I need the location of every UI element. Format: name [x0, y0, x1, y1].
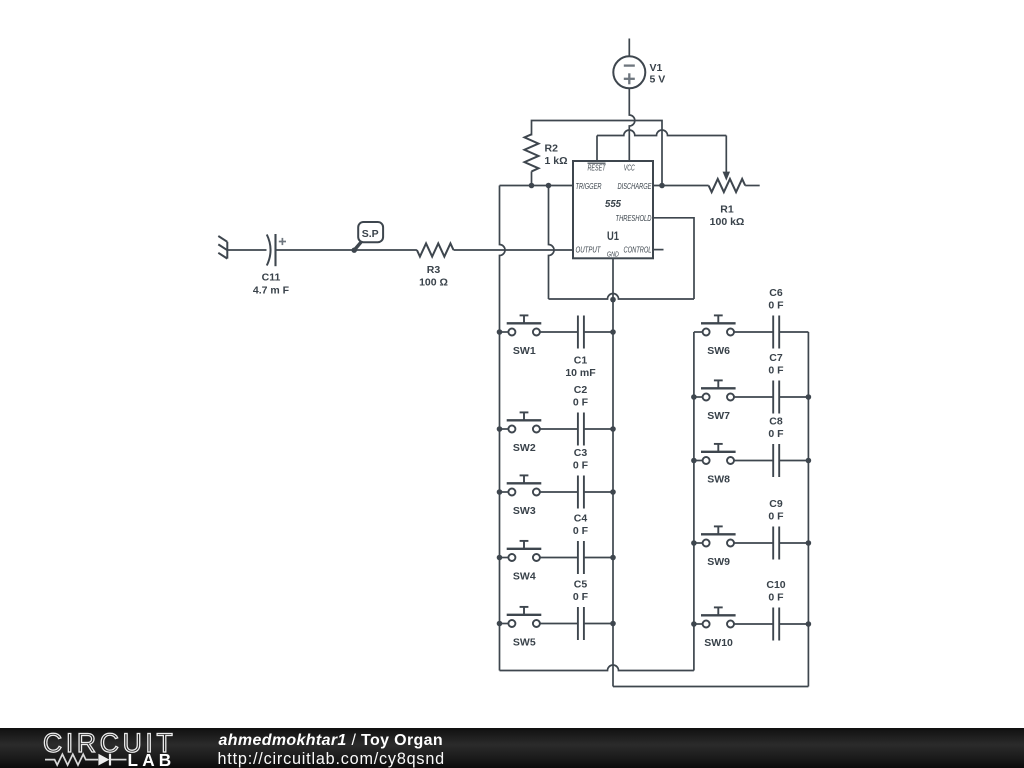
capacitor C2 0 F [540, 384, 613, 445]
svg-text:0 F: 0 F [573, 460, 589, 472]
svg-text:100 Ω: 100 Ω [419, 276, 448, 288]
wire right column left bus [693, 332, 695, 671]
wire right column right bus [807, 332, 809, 687]
svg-text:VCC: VCC [624, 162, 636, 172]
svg-text:R2: R2 [545, 143, 559, 155]
svg-text:C4: C4 [574, 513, 588, 525]
svg-text:S.P: S.P [362, 228, 379, 240]
svg-text:555: 555 [605, 198, 621, 210]
junction C7 on right bus [806, 394, 812, 400]
junction on gnd bus [610, 297, 616, 303]
wire GND pin down the capacitor bus [612, 258, 614, 686]
wire trigger-threshold link vertical (hops over output wire) [549, 186, 555, 300]
svg-text:0 F: 0 F [768, 428, 784, 440]
capacitor C1 10 mF [540, 316, 613, 379]
wire V1 top stub [628, 39, 630, 57]
wire C11 to R3 (OUTPUT net) [276, 249, 417, 251]
junction C5 on right bus [610, 621, 616, 627]
capacitor C3 0 F [540, 447, 613, 508]
junction threshold feedback on trigger wire [546, 183, 552, 189]
svg-text:SW1: SW1 [513, 345, 536, 357]
resistor R3 100 Ω [417, 243, 454, 288]
junction C8 on right bus [806, 458, 812, 464]
svg-text:V1: V1 [650, 62, 663, 74]
switch SW7 [694, 380, 736, 421]
svg-text:SW3: SW3 [513, 505, 536, 517]
svg-text:R3: R3 [427, 264, 441, 276]
svg-text:TRIGGER: TRIGGER [576, 181, 602, 191]
svg-text:SW9: SW9 [707, 556, 730, 568]
junction R2 bottom on trigger wire [529, 183, 535, 189]
junction SW5 on left bus [497, 621, 503, 627]
junction SW7 on left bus [691, 394, 697, 400]
svg-text:C3: C3 [574, 447, 588, 459]
junction SW10 on left bus [691, 621, 697, 627]
svg-text:C10: C10 [766, 579, 785, 591]
svg-text:SW7: SW7 [707, 410, 730, 422]
svg-text:GND: GND [607, 249, 619, 258]
svg-text:C2: C2 [574, 384, 588, 396]
junction SW2 on left bus [497, 426, 503, 432]
probe S.P [352, 222, 384, 253]
wire THRESHOLD to node loop [653, 218, 694, 299]
junction C2 on right bus [610, 426, 616, 432]
svg-text:0 F: 0 F [573, 591, 589, 603]
junction C1 on right bus [610, 329, 616, 335]
svg-text:CONTROL: CONTROL [624, 245, 652, 255]
wire RESET pin to R1 wiper (hops over two verticals) [597, 130, 726, 173]
junction C4 on right bus [610, 555, 616, 561]
junction SW9 on left bus [691, 540, 697, 546]
svg-text:1 kΩ: 1 kΩ [545, 155, 568, 167]
junction SW3 on left bus [497, 489, 503, 495]
capacitor C10 0 F [734, 579, 809, 640]
svg-text:U1: U1 [607, 231, 619, 243]
ground [218, 236, 227, 259]
svg-text:ahmedmokhtar1 / Toy Organ: ahmedmokhtar1 / Toy Organ [219, 732, 444, 749]
svg-text:0 F: 0 F [573, 397, 589, 409]
switch SW9 [694, 526, 736, 567]
svg-text:10 mF: 10 mF [565, 367, 596, 379]
junction C3 on right bus [610, 489, 616, 495]
switch SW8 [694, 444, 736, 485]
switch SW4 [500, 541, 542, 582]
svg-text:0 F: 0 F [573, 525, 589, 537]
junction SW8 on left bus [691, 458, 697, 464]
capacitor C6 0 F [734, 287, 809, 348]
svg-text:R1: R1 [720, 204, 734, 216]
switch SW1 [500, 315, 542, 356]
capacitor C9 0 F [734, 498, 809, 559]
switch SW2 [500, 412, 542, 453]
junction SW4 on left bus [497, 555, 503, 561]
wire ground to C11 [227, 249, 266, 251]
svg-text:C5: C5 [574, 579, 588, 591]
svg-text:DISCHARGE: DISCHARGE [618, 181, 652, 191]
svg-text:C1: C1 [574, 355, 588, 367]
rheostat R1 100 kΩ [709, 172, 760, 229]
voltage source V1 5 V [613, 56, 665, 88]
svg-text:THRESHOLD: THRESHOLD [616, 213, 652, 223]
CircuitLab logo [43, 728, 176, 768]
svg-text:C11: C11 [262, 272, 281, 284]
svg-text:RESET: RESET [588, 162, 607, 172]
svg-text:http://circuitlab.com/cy8qsnd: http://circuitlab.com/cy8qsnd [218, 750, 445, 768]
capacitor C4 0 F [540, 513, 613, 574]
svg-text:SW6: SW6 [707, 345, 730, 357]
svg-text:SW5: SW5 [513, 636, 536, 648]
svg-text:SW2: SW2 [513, 442, 536, 454]
svg-text:0 F: 0 F [768, 300, 784, 312]
junction discharge node [659, 183, 665, 189]
junction C9 on right bus [806, 540, 812, 546]
wire TRIGGER pin [500, 185, 574, 187]
wire DISCHARGE to R1 [653, 185, 709, 187]
wire left bus (trigger to switches, hops over output wire) [500, 186, 506, 671]
svg-text:5 V: 5 V [650, 73, 666, 85]
op-amp/timer IC U1 555 [573, 161, 653, 258]
svg-text:C9: C9 [769, 498, 783, 510]
svg-text:OUTPUT: OUTPUT [576, 245, 602, 255]
svg-text:SW10: SW10 [704, 637, 733, 649]
resistor R2 1 kΩ [525, 134, 568, 185]
switch SW6 [694, 315, 736, 356]
wire CONTROL stub [653, 249, 664, 251]
capacitor C11 4.7 m F [253, 234, 290, 297]
svg-text:C8: C8 [769, 416, 783, 428]
svg-text:C7: C7 [769, 352, 783, 364]
svg-text:0 F: 0 F [768, 592, 784, 604]
svg-text:0 F: 0 F [768, 511, 784, 523]
svg-text:SW8: SW8 [707, 473, 730, 485]
svg-text:LAB: LAB [128, 750, 176, 768]
junction C10 on right bus [806, 621, 812, 627]
wire bottom trigger bus (hops over gnd bus) [500, 665, 694, 671]
svg-text:C6: C6 [769, 287, 783, 299]
switch SW5 [500, 607, 542, 648]
capacitor C5 0 F [540, 579, 613, 640]
junction SW1 on left bus [497, 329, 503, 335]
wire R2 top to DISCHARGE node [532, 121, 663, 186]
svg-text:0 F: 0 F [768, 365, 784, 377]
capacitor C8 0 F [734, 416, 809, 477]
wire R3 to OUTPUT pin of U1 [454, 249, 574, 251]
capacitor C7 0 F [734, 352, 809, 413]
wire trigger-threshold bottom link (hops over gnd bus) [549, 294, 695, 299]
switch SW10 [694, 607, 736, 648]
svg-text:4.7 m F: 4.7 m F [253, 285, 290, 297]
wire bottom gnd link [613, 686, 808, 688]
switch SW3 [500, 475, 542, 516]
svg-text:SW4: SW4 [513, 570, 536, 582]
svg-text:100 kΩ: 100 kΩ [710, 216, 745, 228]
wire V1 to VCC pin (hops over horizontal wire) [629, 88, 635, 161]
